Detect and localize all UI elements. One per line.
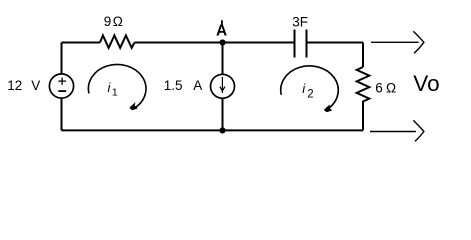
resistor R2 (6 ohm) vertical zigzag — [357, 67, 370, 106]
svg-text:9Ω: 9Ω — [104, 14, 123, 29]
node A junction dot — [219, 39, 225, 45]
wire: top-middle horizontal segment — [135, 42, 295, 44]
mesh current arrow i2 — [281, 66, 339, 112]
wire: middle branch upper segment — [222, 43, 224, 75]
wire: right vertical upper segment — [362, 43, 364, 68]
svg-text:Vo: Vo — [413, 71, 439, 96]
wire: top-left horizontal segment — [62, 42, 101, 44]
wire: right vertical lower segment — [362, 106, 364, 130]
svg-text:2: 2 — [307, 88, 313, 100]
wire: bottom horizontal — [62, 129, 364, 131]
wire: left vertical lower segment — [61, 98, 63, 130]
svg-text:1: 1 — [112, 86, 118, 98]
junction dot bottom (middle branch) — [219, 127, 225, 133]
output arrow bottom — [370, 131, 416, 133]
wire: middle branch lower segment — [222, 98, 224, 130]
current source I1 (1.5 A) circle — [211, 74, 235, 98]
resistor R1 (9 ohm) zigzag — [100, 35, 135, 48]
mesh current arrow i1 — [88, 64, 146, 110]
svg-text:3F: 3F — [292, 14, 308, 29]
output arrow top — [371, 41, 419, 43]
arrow inside current source — [221, 77, 223, 93]
wire: top-right horizontal segment — [307, 42, 364, 44]
capacitor C1 (3 F) plates — [295, 30, 307, 58]
plus sign of V1 — [58, 78, 66, 85]
voltage source V1 (12 V) circle — [49, 74, 73, 98]
wire: left vertical upper segment — [61, 43, 63, 75]
minus sign of V1 — [58, 90, 66, 92]
svg-text:6Ω: 6Ω — [375, 81, 396, 96]
